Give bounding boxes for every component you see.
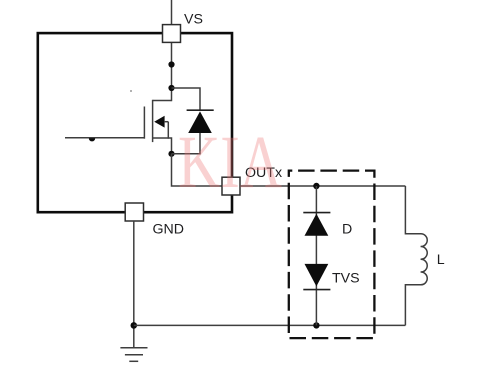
pin GND (pad) (125, 203, 143, 221)
node: junction dot ground rail / clamp (313, 322, 319, 328)
wire: OUTx to load (top rail) (240, 185, 405, 187)
ground symbol (120, 348, 147, 362)
IC U1 (high-side switch outline) (38, 33, 232, 212)
diode D (303, 212, 330, 214)
node: ground junction dot (131, 322, 138, 329)
wire: ground return rail (bottom) (134, 324, 406, 326)
pin OUTx (pad) (222, 177, 240, 195)
transistor Q1 body arrow (154, 116, 164, 128)
svg-text:L: L (437, 252, 445, 268)
clamp network dashed enclosure (289, 171, 375, 339)
svg-text:GND: GND (153, 222, 185, 238)
wire: gate lead (65, 137, 144, 139)
svg-text:D: D (342, 221, 352, 237)
diode TVS (305, 264, 329, 287)
node: junction dot at drain / body-diode tap (168, 85, 174, 91)
wire: body diode branch (172, 88, 201, 154)
inductor L (load) (405, 186, 427, 325)
diode D1 (body diode of Q1) (187, 109, 214, 111)
node: junction dot OUTx rail / clamp (313, 183, 319, 189)
transistor Q1 gate bar (143, 107, 145, 139)
svg-text:VS: VS (184, 12, 203, 28)
node: junction dot at source / body-diode return (168, 151, 174, 157)
wire: source lead of Q1 (153, 138, 172, 154)
node: junction dot on drain feed (upper) (168, 61, 174, 67)
pin VS (pad) (163, 25, 181, 43)
wire: VS supply lead (top) (171, 0, 173, 25)
wire: drain lead into MOSFET channel (153, 100, 172, 102)
node: junction bump on gate lead (89, 138, 95, 141)
transistor Q1 channel bar (152, 100, 154, 142)
wire: source to OUTx pin (172, 154, 223, 186)
stray speck (artifact in source) (130, 90, 132, 92)
svg-text:TVS: TVS (332, 271, 360, 287)
wire: internal drain feed from VS pad (171, 42, 173, 101)
wire: clamp branch vertical (315, 186, 317, 325)
svg-text:KIA: KIA (178, 121, 282, 204)
wire: GND pad down to ground (133, 221, 135, 348)
